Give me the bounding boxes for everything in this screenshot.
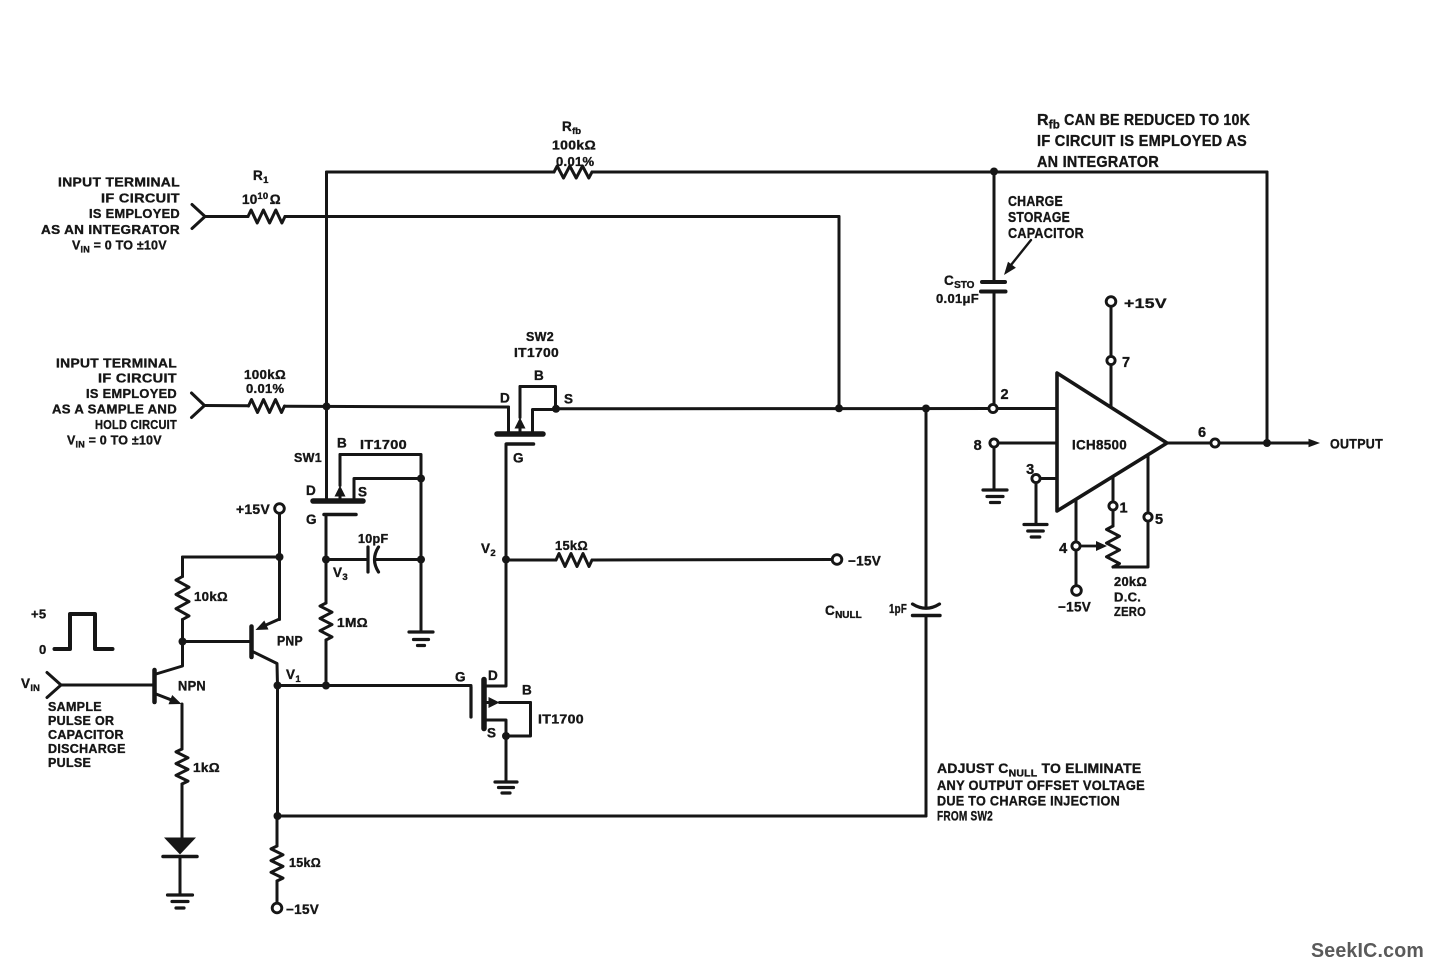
svg-text:−15V: −15V bbox=[286, 902, 319, 917]
op-amp pin3 terminal circle bbox=[1032, 474, 1040, 482]
svg-text:6: 6 bbox=[1198, 425, 1206, 441]
wire Cnull lower vertical bbox=[925, 616, 928, 817]
svg-text:+15V: +15V bbox=[1124, 295, 1167, 311]
wire diode to ground bbox=[179, 857, 182, 895]
wire 1k to diode bbox=[181, 784, 184, 838]
node junction dot 1M at V1 line bbox=[322, 682, 330, 690]
terminal -15V circle (lower) bbox=[272, 903, 282, 913]
node V3 junction dot bbox=[322, 556, 330, 564]
transistor SW1 channel bar bbox=[313, 498, 363, 504]
svg-text:B: B bbox=[337, 436, 347, 451]
transistor NPN collector lead bbox=[156, 642, 183, 675]
wire pot bottom to pin5 bbox=[1113, 522, 1148, 568]
svg-text:FROM SW2: FROM SW2 bbox=[937, 808, 993, 824]
svg-text:IF CIRCUIT IS EMPLOYED AS: IF CIRCUIT IS EMPLOYED AS bbox=[1037, 133, 1247, 150]
svg-text:IT1700: IT1700 bbox=[514, 346, 559, 360]
transistor SW2 drain lead bbox=[507, 407, 510, 432]
svg-text:B: B bbox=[522, 683, 532, 698]
op-amp U1 triangle bbox=[1057, 373, 1167, 511]
input Vin arrow chevron bbox=[47, 673, 61, 698]
wire pin8 to opamp bbox=[999, 442, 1058, 445]
wire pin5 from opamp bottom edge bbox=[1147, 455, 1150, 513]
svg-text:20kΩ: 20kΩ bbox=[1114, 574, 1147, 589]
svg-text:8: 8 bbox=[974, 438, 982, 454]
wire pin3 to ground bbox=[1035, 483, 1038, 524]
svg-text:10pF: 10pF bbox=[358, 532, 388, 546]
node V1 junction dot bbox=[274, 682, 282, 690]
svg-text:0: 0 bbox=[39, 642, 47, 657]
transistor SW2 gate bar bbox=[507, 442, 534, 446]
op-amp pin7 terminal circle bbox=[1107, 356, 1115, 364]
svg-text:CHARGE: CHARGE bbox=[1008, 194, 1063, 210]
wire input1 branch vertical down bbox=[838, 217, 841, 409]
resistor 10k zigzag bbox=[176, 577, 189, 620]
svg-text:NPN: NPN bbox=[178, 679, 206, 694]
svg-text:G: G bbox=[513, 451, 524, 466]
wire SW1 source column vertical bbox=[420, 479, 423, 631]
svg-text:D: D bbox=[306, 483, 316, 498]
input terminal 1 arrow chevron bbox=[192, 205, 205, 229]
transistor NPN base bar bbox=[152, 670, 157, 702]
transistor SW3 gate bar bbox=[469, 687, 472, 717]
op-amp pin6 terminal circle bbox=[1211, 439, 1219, 447]
svg-text:B: B bbox=[534, 368, 544, 383]
potentiometer 20k zigzag bbox=[1107, 526, 1120, 567]
svg-text:D: D bbox=[500, 391, 510, 406]
op-amp pin5 terminal circle bbox=[1144, 513, 1152, 521]
svg-text:4: 4 bbox=[1059, 541, 1067, 557]
svg-text:D: D bbox=[488, 668, 498, 683]
svg-text:PNP: PNP bbox=[277, 634, 303, 649]
wire Csto lower vertical bbox=[993, 294, 996, 405]
svg-text:+15V: +15V bbox=[236, 502, 270, 517]
transistor NPN emitter lead bbox=[156, 694, 172, 700]
wire input1 to R1 bbox=[205, 215, 248, 218]
wire input2 line SW2 source to opamp pin2 bbox=[556, 407, 989, 410]
transistor SW1 body loop to source column bbox=[340, 455, 421, 479]
wire 1M to V1 line bbox=[325, 640, 328, 686]
resistor 15k (lower) zigzag bbox=[271, 846, 283, 881]
wire pin6 to output bbox=[1220, 442, 1310, 445]
capacitor Cnull bottom plate bbox=[913, 614, 941, 617]
svg-text:7: 7 bbox=[1122, 355, 1130, 371]
ground symbol below diode bbox=[168, 893, 193, 896]
wire Csto upper vertical bbox=[993, 172, 996, 281]
capacitor 10pF left plate bbox=[366, 547, 369, 572]
node SW1 source junction dot bbox=[417, 475, 425, 483]
transistor PNP collector lead bbox=[254, 652, 278, 686]
svg-text:ZERO: ZERO bbox=[1114, 604, 1146, 619]
wire input1 line to branch corner bbox=[285, 215, 839, 218]
wire SW1 gate down to V3 bbox=[325, 515, 328, 560]
svg-text:IT1700: IT1700 bbox=[538, 713, 584, 727]
resistor 1k zigzag bbox=[176, 749, 188, 784]
node junction dot +15V column and 10k bbox=[276, 553, 284, 561]
transistor PNP emitter lead bbox=[266, 619, 280, 625]
wire +15V down to junction bbox=[278, 514, 281, 558]
wire pin4 from opamp bottom edge bbox=[1075, 500, 1078, 542]
svg-text:PULSE: PULSE bbox=[48, 756, 91, 770]
svg-text:+5: +5 bbox=[31, 607, 46, 622]
svg-text:HOLD CIRCUIT: HOLD CIRCUIT bbox=[95, 418, 177, 432]
wire vertical branch from feedback line to input2 bbox=[325, 172, 328, 406]
ground symbol pin8 bbox=[983, 488, 1007, 491]
svg-text:AS A SAMPLE AND: AS A SAMPLE AND bbox=[52, 403, 177, 417]
svg-text:INPUT TERMINAL: INPUT TERMINAL bbox=[56, 357, 177, 371]
transistor SW3 source lead bbox=[484, 720, 506, 736]
wire pin4 to -15V terminal bbox=[1075, 551, 1078, 586]
node V2 junction dot bbox=[502, 556, 510, 564]
wire V3 to 1M resistor bbox=[325, 560, 328, 604]
transistor SW1 source lead bbox=[354, 479, 421, 499]
svg-text:1: 1 bbox=[1120, 501, 1128, 517]
transistor SW3 body arrow bbox=[500, 701, 531, 704]
wire V2 down to SW3 drain bbox=[484, 560, 506, 686]
svg-text:2: 2 bbox=[1001, 387, 1009, 403]
transistor SW1 gate bar bbox=[324, 513, 356, 517]
resistor R1 zigzag bbox=[248, 210, 285, 223]
svg-text:INPUT TERMINAL: INPUT TERMINAL bbox=[58, 176, 180, 190]
svg-text:CAPACITOR: CAPACITOR bbox=[1008, 226, 1084, 242]
wire NPN emitter to 1k bbox=[181, 704, 184, 749]
capacitor CSTO bottom plate bbox=[981, 290, 1006, 294]
svg-text:IS EMPLOYED: IS EMPLOYED bbox=[89, 207, 180, 221]
wire pin7 to +15V terminal bbox=[1110, 307, 1113, 357]
input terminal 2 arrow chevron bbox=[192, 393, 205, 418]
wire bottom rail V1 to Cnull bbox=[278, 815, 927, 818]
svg-text:IT1700: IT1700 bbox=[360, 438, 407, 452]
node junction dot 10pF right bbox=[417, 556, 425, 564]
svg-text:−15V: −15V bbox=[848, 554, 881, 569]
svg-text:Rfb CAN BE REDUCED TO 10K: Rfb CAN BE REDUCED TO 10K bbox=[1037, 112, 1250, 132]
svg-text:1kΩ: 1kΩ bbox=[193, 760, 220, 775]
op-amp pin1 terminal circle bbox=[1109, 502, 1117, 510]
svg-text:0.01μF: 0.01μF bbox=[936, 291, 979, 306]
terminal -15V circle (pin4) bbox=[1072, 586, 1082, 596]
svg-text:D.C.: D.C. bbox=[1114, 590, 1141, 605]
svg-text:S: S bbox=[487, 726, 496, 741]
svg-text:SeekIC.com: SeekIC.com bbox=[1311, 940, 1424, 962]
svg-text:IF CIRCUIT: IF CIRCUIT bbox=[101, 192, 180, 206]
wire +15V column down to PNP emitter bbox=[278, 557, 281, 620]
svg-text:CAPACITOR: CAPACITOR bbox=[48, 728, 124, 742]
transistor SW1 body arrow bbox=[339, 455, 342, 486]
wire 10pF to SW1 source column bbox=[375, 558, 421, 561]
wire SW3 source to ground bbox=[505, 736, 508, 781]
node junction dot on feedback line at Csto branch bbox=[990, 168, 998, 176]
wire opamp output to pin6 bbox=[1167, 442, 1211, 445]
wire feedback top line right segment bbox=[592, 171, 1267, 174]
svg-text:15kΩ: 15kΩ bbox=[289, 855, 321, 870]
svg-text:15kΩ: 15kΩ bbox=[555, 538, 588, 553]
svg-text:1MΩ: 1MΩ bbox=[337, 615, 368, 630]
wire V1 vertical down bbox=[276, 686, 279, 817]
wire Cnull upper vertical bbox=[925, 409, 928, 608]
node SW2 source junction dot bbox=[552, 405, 560, 413]
svg-text:STORAGE: STORAGE bbox=[1008, 210, 1070, 226]
svg-text:100kΩ: 100kΩ bbox=[552, 138, 596, 153]
wire 15k lower lead bbox=[276, 881, 279, 903]
svg-text:G: G bbox=[455, 670, 466, 685]
output arrowhead bbox=[1309, 439, 1321, 447]
wire pin3 to opamp bbox=[1041, 477, 1058, 480]
svg-text:IS EMPLOYED: IS EMPLOYED bbox=[86, 387, 177, 401]
node junction dot output/feedback bbox=[1263, 439, 1271, 447]
svg-text:1pF: 1pF bbox=[889, 602, 907, 616]
capacitor CSTO top plate bbox=[982, 280, 1005, 284]
terminal -15V (V2 line) circle bbox=[832, 555, 842, 565]
wire V1 bottom to 15k bbox=[276, 816, 279, 846]
wire pin2 to opamp bbox=[998, 407, 1058, 410]
svg-text:ANY OUTPUT OFFSET VOLTAGE: ANY OUTPUT OFFSET VOLTAGE bbox=[937, 777, 1145, 793]
resistor 100k 0.01% zigzag bbox=[249, 400, 285, 413]
wire feedback right vertical bbox=[1266, 172, 1269, 443]
transistor SW2 channel bar bbox=[497, 431, 543, 437]
svg-text:S: S bbox=[564, 392, 573, 407]
svg-text:10kΩ: 10kΩ bbox=[194, 589, 228, 604]
node junction dot input2 with vertical branch bbox=[323, 402, 331, 410]
svg-text:3: 3 bbox=[1026, 462, 1034, 478]
waveform sample pulse bbox=[55, 614, 113, 649]
svg-text:SW2: SW2 bbox=[526, 330, 554, 344]
op-amp pin2 terminal circle bbox=[989, 404, 997, 412]
wire PNP base to 10k junction bbox=[183, 640, 250, 643]
svg-text:ICH8500: ICH8500 bbox=[1072, 437, 1127, 453]
svg-text:0.01%: 0.01% bbox=[246, 381, 285, 396]
wire pin1 from opamp bottom edge bbox=[1112, 477, 1115, 502]
svg-text:0.01%: 0.01% bbox=[556, 154, 595, 169]
ground symbol below SW1 source column bbox=[409, 630, 433, 633]
terminal +15V circle (op-amp) bbox=[1106, 297, 1116, 307]
node junction dot V1 bottom bbox=[274, 812, 282, 820]
wire input2 to 100k resistor bbox=[205, 404, 249, 407]
wire 10k bottom lead bbox=[181, 620, 184, 642]
resistor 1M zigzag bbox=[320, 603, 332, 640]
svg-text:G: G bbox=[306, 512, 317, 527]
wire SW2 gate vertical to V2 bbox=[505, 444, 508, 560]
transistor SW2 source lead bbox=[533, 410, 557, 432]
svg-text:S: S bbox=[358, 485, 367, 500]
wire 15k to -15V terminal bbox=[592, 558, 832, 562]
svg-text:100kΩ: 100kΩ bbox=[244, 367, 286, 382]
transistor SW2 body loop to source bbox=[520, 387, 556, 409]
diode CR1 cathode bar bbox=[163, 855, 197, 859]
svg-text:DUE TO CHARGE INJECTION: DUE TO CHARGE INJECTION bbox=[937, 793, 1120, 809]
wire pin1 to potentiometer bbox=[1112, 511, 1115, 527]
svg-text:OUTPUT: OUTPUT bbox=[1330, 437, 1383, 452]
resistor 15k (V2) zigzag bbox=[556, 554, 592, 567]
transistor SW1 drain lead vertical bbox=[325, 406, 328, 498]
svg-text:5: 5 bbox=[1155, 512, 1163, 528]
node junction dot Cnull branch on input line bbox=[922, 405, 930, 413]
wire Vin to NPN base bbox=[61, 684, 153, 687]
svg-text:DISCHARGE: DISCHARGE bbox=[48, 742, 126, 756]
wire V3 to 10pF capacitor bbox=[326, 558, 368, 561]
wire junction to 10k top bbox=[183, 556, 280, 559]
svg-text:AS AN INTEGRATOR: AS AN INTEGRATOR bbox=[41, 223, 180, 237]
ground symbol pin3 bbox=[1024, 523, 1047, 526]
svg-text:SAMPLE: SAMPLE bbox=[48, 700, 102, 714]
capacitor 10pF right curved plate bbox=[375, 547, 379, 572]
svg-text:−15V: −15V bbox=[1058, 600, 1091, 615]
wire 10k top lead bbox=[181, 557, 184, 577]
wire pin8 to ground bbox=[993, 448, 996, 490]
transistor SW2 body arrow bbox=[519, 387, 522, 418]
potentiometer wiper arrow from pin4 bbox=[1081, 545, 1099, 548]
svg-text:PULSE OR: PULSE OR bbox=[48, 714, 114, 728]
diode CR1 anode triangle bbox=[164, 838, 196, 855]
ground symbol below SW3 bbox=[495, 780, 517, 783]
node junction dot R1 branch on input line bbox=[835, 404, 843, 412]
wire feedback top line left segment bbox=[327, 171, 555, 174]
wire pin7 to opamp top edge bbox=[1110, 365, 1113, 407]
node SW3 source junction dot bbox=[502, 732, 510, 740]
wire input2 line to SW2 drain bbox=[285, 405, 509, 409]
transistor SW3 body loop to source bbox=[506, 703, 531, 737]
annotation arrow to Csto bbox=[1011, 240, 1031, 265]
svg-text:IF CIRCUIT: IF CIRCUIT bbox=[98, 372, 177, 386]
terminal +15V circle (driver) bbox=[275, 504, 285, 514]
capacitor Cnull curved top plate bbox=[913, 604, 940, 608]
node junction dot base/10k/NPN collector bbox=[179, 638, 187, 646]
svg-text:SW1: SW1 bbox=[294, 451, 322, 465]
svg-text:AN INTEGRATOR: AN INTEGRATOR bbox=[1037, 154, 1159, 171]
wire V2 to 15k resistor bbox=[506, 559, 556, 562]
op-amp pin8 terminal circle bbox=[990, 439, 998, 447]
resistor Rfb zigzag bbox=[554, 166, 592, 178]
transistor SW3 channel bar bbox=[481, 680, 487, 729]
transistor PNP base bar bbox=[249, 627, 254, 658]
transistor SW3 gate wire from V1 bbox=[278, 684, 472, 687]
op-amp pin4 terminal circle bbox=[1072, 542, 1080, 550]
